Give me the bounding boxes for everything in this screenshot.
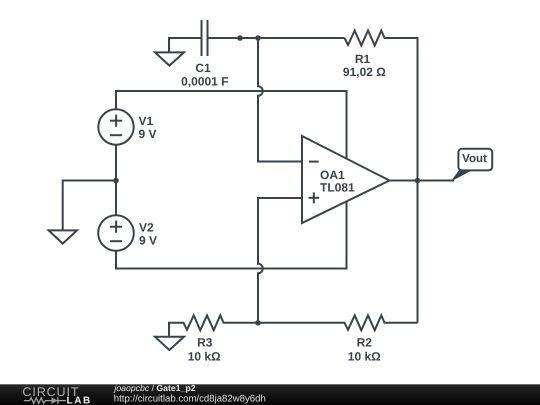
- svg-text:Vout: Vout: [462, 153, 487, 165]
- svg-text:C1: C1: [195, 61, 211, 75]
- svg-text:9 V: 9 V: [139, 233, 157, 247]
- svg-text:LAB: LAB: [67, 396, 92, 405]
- svg-text:R1: R1: [355, 52, 371, 66]
- svg-text:R2: R2: [357, 336, 373, 350]
- svg-text:V2: V2: [139, 220, 154, 234]
- svg-text:V1: V1: [139, 114, 154, 128]
- svg-text:9 V: 9 V: [139, 127, 157, 141]
- svg-text:0,0001 F: 0,0001 F: [181, 75, 228, 89]
- svg-text:10 kΩ: 10 kΩ: [348, 349, 381, 363]
- svg-text:http://circuitlab.com/cd8ja82w: http://circuitlab.com/cd8ja82w8y6dh: [114, 394, 266, 405]
- svg-text:joaopcbc / Gate1_p2: joaopcbc / Gate1_p2: [113, 383, 195, 393]
- svg-text:R3: R3: [197, 336, 213, 350]
- svg-text:91,02 Ω: 91,02 Ω: [343, 65, 386, 79]
- svg-text:TL081: TL081: [320, 181, 355, 195]
- svg-text:10 kΩ: 10 kΩ: [188, 349, 221, 363]
